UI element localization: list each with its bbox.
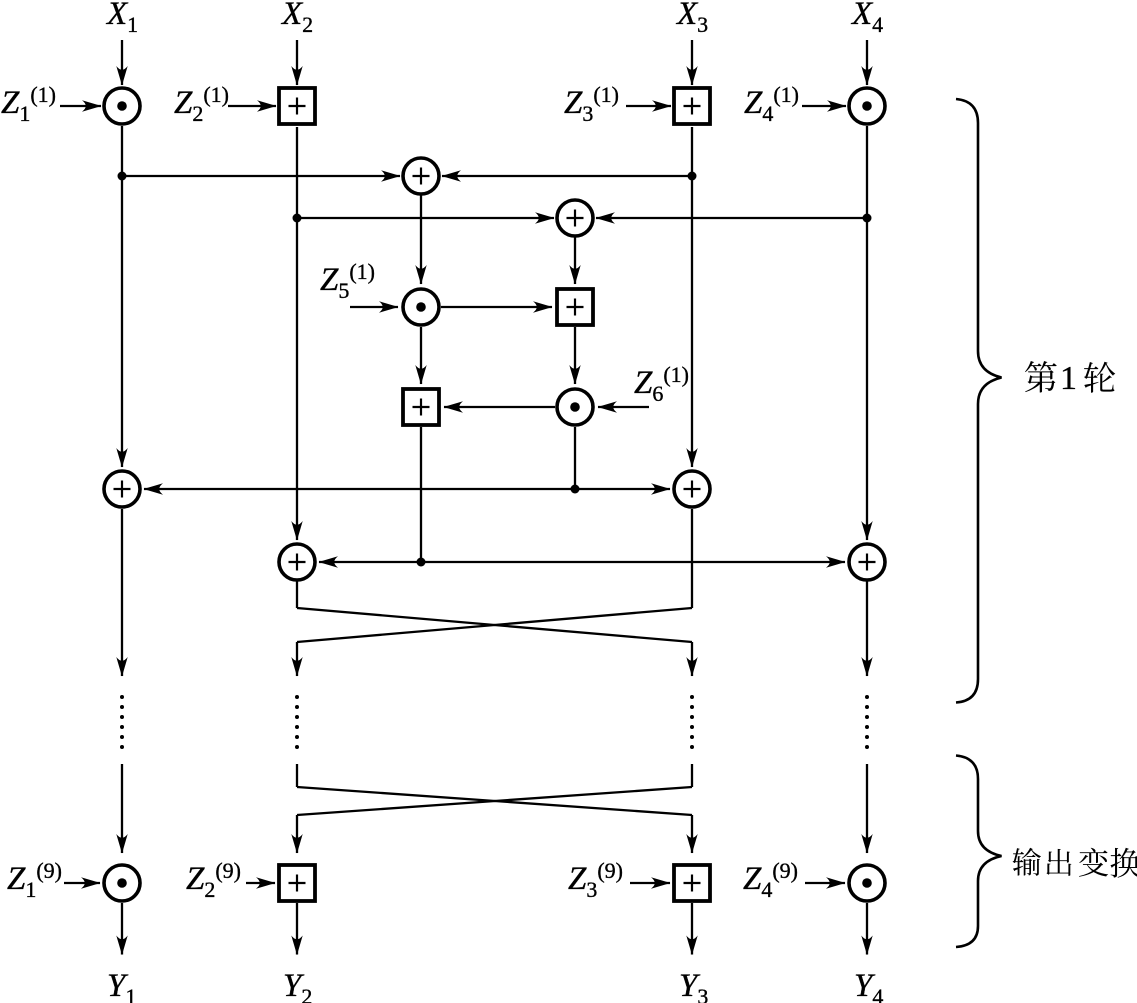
- node J6 junction: [417, 558, 426, 567]
- wire X1 input arrow: [121, 40, 123, 85]
- xor U5 (XOR1): [403, 158, 439, 194]
- wire XOR6 output down: [866, 580, 868, 676]
- svg-text:1: 1: [1060, 360, 1077, 397]
- xor U6 (XOR2): [557, 200, 593, 236]
- wire bottom X2 stub: [296, 764, 298, 787]
- wire Z3 arrow: [626, 105, 671, 107]
- node J1 junction on X1 column: [118, 172, 127, 181]
- wire J2 to XOR2 left input: [297, 217, 554, 219]
- wire cross arrow down left: [296, 642, 298, 676]
- wire Z6 arrow: [598, 406, 649, 408]
- node J2 junction on X2 column: [293, 214, 302, 223]
- wire dotted continuation column X4: [865, 695, 869, 749]
- wire X2 column down to XOR5: [296, 127, 298, 540]
- wire X3 input arrow: [691, 40, 693, 85]
- adder U9 (ADD6): [403, 389, 439, 425]
- wire XOR3 output down: [121, 509, 123, 676]
- xor U13 (XOR5): [279, 544, 315, 580]
- wire J4 to XOR2 right input: [596, 217, 867, 219]
- wire cross arrow down right: [691, 642, 693, 676]
- node J5 junction: [571, 485, 580, 494]
- brace output transform: [956, 756, 1002, 948]
- wire dotted continuation column X3: [690, 695, 694, 749]
- wire MUL6 to ADD6: [444, 406, 555, 408]
- wire XOR5 output down: [296, 580, 298, 608]
- brace round 1: [956, 99, 1002, 703]
- wire J6 to XOR5: [319, 561, 421, 563]
- wire cross X2 to X3 diagonal: [297, 608, 692, 642]
- wire ADD6 output down to junction J6: [420, 427, 422, 562]
- multiplier U10 (MUL6 with Z6): [557, 389, 593, 425]
- wire XOR2 output down to ADD5: [574, 236, 576, 284]
- node J4 junction on X4 column: [863, 214, 872, 223]
- xor U14 (XOR6): [849, 544, 885, 580]
- adder U17 (Y3 + Z3(9)): [674, 865, 710, 901]
- wire MUL5 output down to ADD6: [420, 327, 422, 384]
- adder U16 (Y2 + Z2(9)): [279, 865, 315, 901]
- wire output arrow Y2: [296, 903, 298, 955]
- wire X3 column down to XOR4: [691, 127, 693, 467]
- wire X2 input arrow: [296, 40, 298, 85]
- wire MUL6 output down to junction J5: [574, 427, 576, 489]
- wire Z3(9) arrow: [630, 882, 670, 884]
- wire bottom arrow into ADD10: [691, 815, 693, 853]
- wire MUL5 to ADD5: [441, 306, 552, 308]
- multiplier U15 (Y1 * Z1(9)): [104, 865, 140, 901]
- wire dotted continuation column X1: [120, 695, 124, 749]
- wire X1 column down to XOR3: [121, 126, 123, 467]
- wire dotted continuation column X2: [295, 695, 299, 749]
- wire Z4 arrow: [802, 105, 846, 107]
- wire output arrow Y1: [121, 903, 123, 955]
- label output-transform text (输出变换): [1012, 848, 1137, 878]
- wire XOR4 output down: [691, 509, 693, 608]
- label round-1 text (第 1 轮): [1025, 360, 1115, 397]
- wire J3 to XOR1 right input: [442, 175, 692, 177]
- wire bottom arrow into ADD9: [296, 815, 298, 853]
- wire cross X3 to X2 diagonal: [297, 608, 692, 642]
- wire output arrow Y3: [691, 903, 693, 955]
- multiplier U4 (X4 * Z4): [849, 88, 885, 124]
- multiplier U1 (X1 * Z1): [104, 88, 140, 124]
- wire X4 input arrow: [866, 40, 868, 85]
- wire J6 to XOR6: [421, 561, 845, 563]
- wire ADD5 output down to MUL6: [574, 327, 576, 384]
- wire J5 to XOR4: [575, 488, 670, 490]
- adder U2 (X2 + Z2): [279, 88, 315, 124]
- wire bottom cross X3 to X2: [297, 787, 692, 815]
- wire X4 column down to XOR6: [866, 126, 868, 540]
- wire bottom cross X2 to X3: [297, 787, 692, 815]
- wire Z4(9) arrow: [805, 882, 845, 884]
- node J3 junction on X3 column: [688, 172, 697, 181]
- wire XOR1 output down to MUL5: [420, 194, 422, 284]
- xor U11 (XOR3): [104, 471, 140, 507]
- wire J5 to XOR3: [144, 488, 575, 490]
- multiplier U18 (Y4 * Z4(9)): [849, 865, 885, 901]
- wire output arrow Y4: [866, 903, 868, 955]
- wire bottom X4 down to MUL12: [866, 764, 868, 853]
- wire Z1(9) arrow: [64, 882, 100, 884]
- wire Z5 arrow: [350, 306, 398, 308]
- wire Z2 arrow: [228, 105, 276, 107]
- wire Z2(9) arrow: [246, 882, 275, 884]
- wire Z1 arrow: [60, 105, 101, 107]
- adder U3 (X3 + Z3): [674, 88, 710, 124]
- xor U12 (XOR4): [674, 471, 710, 507]
- wire bottom X3 stub: [691, 764, 693, 787]
- wire J1 to XOR1 left input: [122, 175, 400, 177]
- adder U8 (ADD5): [557, 289, 593, 325]
- wire bottom X1 down to MUL9: [121, 764, 123, 853]
- multiplier U7 (MUL5 with Z5): [403, 289, 439, 325]
